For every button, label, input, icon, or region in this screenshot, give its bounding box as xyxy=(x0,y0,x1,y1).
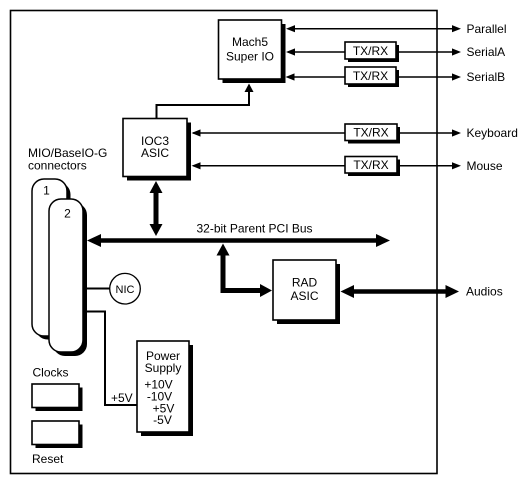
bus: 32-bit Parent PCI Bus thick double arrow xyxy=(87,234,390,247)
connector 1 (MIO/BaseIO-G) xyxy=(32,179,71,340)
svg-text:Parallel: Parallel xyxy=(467,22,507,36)
box TX/RX Mouse xyxy=(345,157,400,177)
wire: connector2 to +5V to Power Supply xyxy=(83,312,137,406)
box TX/RX SerialB xyxy=(345,67,399,87)
box Power Supply with voltages xyxy=(137,341,193,436)
box TX/RX SerialA xyxy=(345,42,399,62)
NIC circle xyxy=(110,273,141,304)
svg-text:TX/RX: TX/RX xyxy=(353,69,388,83)
connector 2 (MIO/BaseIO-G) xyxy=(49,199,87,356)
box Mach5 Super IO xyxy=(219,20,286,83)
svg-text:Mouse: Mouse xyxy=(467,159,503,173)
wire: SerialB line xyxy=(286,73,462,80)
label MIO/BaseIO-G connectors xyxy=(28,146,107,172)
wire: connector2 to NIC xyxy=(83,288,111,290)
wire: SerialA line xyxy=(286,48,461,55)
svg-text:NIC: NIC xyxy=(116,284,135,296)
svg-text:1: 1 xyxy=(43,184,50,198)
svg-text:-5V: -5V xyxy=(153,413,172,427)
wire: Keyboard line from IOC3 to label xyxy=(192,129,462,136)
wire: Mouse line from IOC3 to label xyxy=(192,162,462,169)
svg-text:Supply: Supply xyxy=(145,361,182,375)
svg-text:2: 2 xyxy=(64,207,71,221)
box Clocks xyxy=(32,384,83,411)
svg-text:TX/RX: TX/RX xyxy=(353,44,388,58)
svg-text:SerialB: SerialB xyxy=(467,70,506,84)
svg-text:Audios: Audios xyxy=(466,285,503,299)
thick double arrow: IOC3 to PCI bus xyxy=(150,181,163,236)
svg-text:TX/RX: TX/RX xyxy=(353,126,388,140)
svg-text:Mach5: Mach5 xyxy=(232,35,268,49)
svg-text:Reset: Reset xyxy=(32,452,64,466)
wire: Parallel line from Mach5 to label xyxy=(286,25,461,32)
outer border frame of system board xyxy=(11,11,438,474)
wire: IOC3 top to Mach5 bottom with up arrow xyxy=(157,84,254,119)
svg-text:Super IO: Super IO xyxy=(226,50,274,64)
svg-text:ASIC: ASIC xyxy=(290,289,318,303)
svg-text:TX/RX: TX/RX xyxy=(353,158,388,172)
svg-text:+5V: +5V xyxy=(111,391,133,405)
svg-text:Keyboard: Keyboard xyxy=(467,126,518,140)
box Reset xyxy=(32,421,83,448)
box RAD ASIC xyxy=(273,260,340,324)
svg-text:RAD: RAD xyxy=(292,276,318,290)
thick double arrow: RAD ASIC to Audios xyxy=(341,285,460,298)
svg-text:SerialA: SerialA xyxy=(467,45,506,59)
svg-text:ASIC: ASIC xyxy=(141,146,169,160)
svg-text:32-bit Parent PCI Bus: 32-bit Parent PCI Bus xyxy=(197,222,313,236)
svg-text:connectors: connectors xyxy=(28,158,87,172)
box IOC3 ASIC xyxy=(123,119,191,181)
svg-text:Clocks: Clocks xyxy=(33,366,69,380)
thick L arrow: PCI bus down to RAD ASIC xyxy=(217,244,273,298)
box TX/RX Keyboard xyxy=(345,124,400,144)
